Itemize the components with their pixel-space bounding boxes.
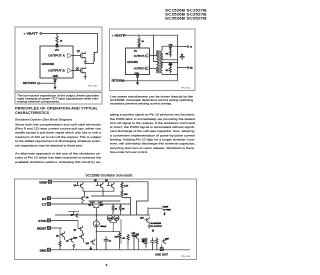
transistor Q8 — [71, 212, 79, 218]
transistor Q16 — [140, 217, 149, 225]
node center tap junction — [153, 35, 154, 36]
resistor R13 — [119, 204, 125, 215]
wire to resistor — [56, 34, 58, 37]
resistor R5 — [166, 66, 172, 74]
svg-text:VREF: VREF — [39, 181, 48, 185]
transformer T1 primary — [157, 50, 158, 72]
resistor R1 — [56, 36, 63, 44]
paragraph right column — [110, 113, 195, 154]
transistor Q6 — [56, 231, 65, 240]
label blanking — [151, 222, 163, 232]
wire secondary bottom cell — [162, 63, 177, 68]
node junction — [56, 33, 57, 34]
svg-text:PRINCIPLES OF OPERATION AND TY: PRINCIPLES OF OPERATION AND TYPICAL — [15, 107, 99, 111]
node tail junction — [96, 207, 97, 208]
transistor Q2 — [94, 180, 103, 191]
wire reset — [51, 227, 63, 229]
transistor Q14 — [107, 215, 113, 221]
svg-text:VC: VC — [134, 50, 138, 53]
transistor Q3 — [105, 180, 114, 191]
paragraph left column — [15, 122, 102, 147]
wire ct — [51, 203, 131, 205]
svg-text:TO OUTPUT: TO OUTPUT — [151, 226, 163, 228]
wire +Vbatt rail right — [125, 35, 177, 81]
caption text left — [17, 95, 100, 104]
capacitor C4 — [132, 232, 140, 250]
svg-text:mizing external components.: mizing external components. — [17, 100, 60, 103]
transistor Q1 — [74, 181, 84, 191]
pin SYNC — [38, 219, 50, 223]
transistor Q4 — [88, 201, 94, 207]
pin OSC OUT — [155, 244, 168, 256]
wire sync drop — [60, 220, 78, 239]
svg-text:RAMP: RAMP — [163, 206, 170, 209]
ground arrow mid — [90, 246, 92, 250]
resistor R9 — [73, 244, 75, 250]
svg-text:+ VBATT: + VBATT — [24, 32, 39, 36]
inductor L1 — [85, 53, 97, 64]
node RETURN terminal right — [112, 80, 125, 83]
transistor Q18 — [162, 238, 170, 244]
wire rt drop — [88, 200, 90, 202]
node gnd junction right — [137, 80, 138, 81]
svg-text:fore under full user control.: fore under full user control. — [110, 150, 148, 154]
wire mid bus — [91, 196, 131, 215]
transformer T1 secondary — [161, 51, 162, 73]
svg-text:450µA: 450µA — [100, 225, 106, 228]
svg-text:GROUND: GROUND — [127, 61, 138, 64]
paragraph left column 2 — [15, 151, 101, 163]
wire output A to QF gate — [72, 55, 81, 57]
svg-text:TO PWM: TO PWM — [163, 209, 172, 211]
svg-text:+ VBATT: + VBATT — [112, 34, 125, 37]
figure frame — [110, 29, 196, 91]
transistor Q13 — [142, 238, 147, 244]
transistor QE — [76, 67, 86, 76]
wire return rail right — [124, 80, 177, 82]
svg-text:CHARACTERISTICS: CHARACTERISTICS — [15, 111, 50, 115]
resistor R3 — [138, 35, 145, 44]
transistor Q15 — [114, 215, 120, 221]
transistor Q10 — [74, 233, 84, 242]
svg-text:OUTPUT B: OUTPUT B — [48, 69, 65, 73]
wire q8 bus — [68, 211, 79, 213]
caption box left — [15, 93, 102, 104]
label ramp to pwm — [163, 206, 172, 216]
node junction dots right rail — [177, 46, 178, 68]
resistor R8 — [59, 240, 61, 249]
node RETURN terminal — [23, 81, 40, 85]
transistor Q11 — [86, 239, 95, 245]
wire return — [39, 82, 55, 84]
wire gnd rail — [51, 249, 191, 251]
svg-text:CT: CT — [42, 203, 47, 207]
wire q1 q2 q3 bus — [83, 191, 114, 196]
svg-text:15K: 15K — [124, 194, 128, 196]
pin RESET — [37, 226, 51, 230]
transistor Q7 — [66, 237, 74, 243]
diode CR1 — [55, 44, 58, 48]
wire mid links — [96, 230, 119, 232]
pin OUTPUT B — [48, 68, 72, 72]
ground symbol schematic right — [148, 225, 151, 229]
pin RT — [42, 197, 51, 201]
capacitor C3 — [150, 237, 155, 249]
svg-text:OSC OUT: OSC OUT — [155, 252, 168, 256]
svg-text:RT: RT — [42, 197, 47, 201]
resistor R7 — [121, 188, 128, 196]
svg-text:TPS–5103: TPS–5103 — [181, 256, 190, 258]
wire sync — [51, 219, 79, 221]
svg-text:RETURN: RETURN — [23, 81, 36, 85]
svg-text:available shutdown options. Ac: available shutdown options. Activating t… — [15, 160, 101, 164]
transistor QF — [77, 50, 85, 60]
wire secondary top cell — [162, 46, 177, 51]
wire output B to T1 — [150, 67, 157, 69]
ground arrow return — [54, 82, 56, 89]
node junction dots bottom rail — [59, 249, 153, 250]
IC block U2 — [126, 48, 150, 75]
wire diff pair tail — [93, 208, 99, 221]
IC block U1 — [40, 46, 73, 78]
svg-text:RESET: RESET — [37, 227, 47, 231]
ground QE — [84, 75, 87, 79]
wire lower bus — [55, 214, 150, 216]
wire output A to T1 — [150, 55, 157, 57]
svg-text:SYNC: SYNC — [38, 219, 47, 223]
svg-text:OUTPUT A: OUTPUT A — [48, 54, 65, 58]
svg-text:OUTPUT B: OUTPUT B — [134, 68, 147, 71]
resistor R11 — [142, 237, 147, 247]
pin OUTPUT A right — [134, 54, 150, 58]
svg-text:10K: 10K — [115, 236, 119, 238]
node junction right — [138, 35, 139, 36]
svg-text:GND: GND — [40, 248, 48, 252]
current source I1 — [93, 221, 107, 250]
svg-text:RETURN: RETURN — [112, 80, 124, 83]
pin OUTPUT A — [48, 53, 72, 57]
svg-text:1.5K: 1.5K — [124, 186, 129, 188]
diode CR3 — [137, 44, 140, 48]
svg-text:QF: QF — [77, 50, 81, 53]
wire vref rail — [52, 181, 149, 183]
wire q12 q13 drops — [121, 219, 139, 250]
node output terminal GND — [178, 67, 194, 70]
svg-text:Shutdown Options (See Block Di: Shutdown Options (See Block Diagram) — [15, 118, 72, 122]
wire output B to QE gate — [72, 70, 81, 72]
resistor R4 — [166, 49, 172, 57]
schematic box — [15, 179, 197, 260]
caption text right — [110, 96, 194, 106]
svg-text:transitions prevents winding c: transitions prevents winding current ove… — [110, 103, 172, 106]
wire rt — [51, 197, 81, 199]
wire branch right — [137, 182, 149, 215]
transistor Q12 — [132, 233, 139, 243]
transformer T1 core — [159, 50, 160, 74]
svg-text:TPS–5101: TPS–5101 — [88, 86, 97, 88]
pin OUTPUT B right — [134, 66, 150, 70]
svg-text:OUTPUT A: OUTPUT A — [134, 55, 147, 58]
pin VREF — [39, 180, 51, 184]
node +VBATT terminal right — [112, 34, 125, 37]
zener CR6 under GND pin right — [136, 75, 138, 78]
wire ramp — [148, 208, 162, 215]
svg-text:QE: QE — [76, 67, 80, 70]
pin CT — [42, 202, 51, 206]
wire q14 q15 tails — [110, 221, 116, 232]
diode CR5 — [169, 63, 174, 66]
resistor R14 — [115, 231, 121, 248]
ground QF — [84, 60, 87, 64]
wire bottom cell lower — [162, 73, 177, 74]
node return junction — [54, 83, 55, 84]
svg-text:SC3526B SC3527B: SC3526B SC3527B — [165, 17, 207, 21]
svg-text:GND: GND — [53, 75, 59, 78]
svg-text:SC1526B Oscillator Schematic: SC1526B Oscillator Schematic — [86, 173, 133, 177]
resistor R10 — [123, 234, 130, 245]
zener CR2 under GND pin — [54, 78, 57, 82]
svg-text:TPS–5102: TPS–5102 — [181, 87, 190, 89]
node mid junctions — [96, 196, 158, 251]
svg-text:GROUND: GROUND — [42, 62, 55, 66]
node +VBATT terminal — [24, 32, 42, 36]
node output terminal +V — [178, 46, 193, 49]
wire comparator top bus — [89, 200, 121, 202]
heading principles — [15, 107, 99, 116]
capacitor C2 — [104, 236, 112, 250]
transistor Q21 — [81, 191, 90, 204]
svg-text:BLANKING: BLANKING — [151, 222, 162, 225]
figure frame — [15, 27, 102, 91]
svg-text:nal capacitance may be attache: nal capacitance may be attached to these… — [15, 143, 83, 147]
wire bottom of top cell — [162, 54, 177, 60]
resistor R15 — [156, 237, 158, 249]
diode CR4 — [169, 44, 174, 49]
ground arrow right figure — [136, 78, 138, 85]
wire center tap — [154, 35, 157, 61]
pin GND — [40, 248, 51, 252]
capacitor C1 — [180, 54, 185, 60]
transistor Q5 — [98, 201, 104, 207]
svg-text:VC: VC — [55, 48, 60, 52]
wire +Vbatt rail — [42, 34, 98, 53]
svg-text:GND: GND — [134, 73, 139, 75]
header part numbers — [165, 9, 207, 21]
transistor Q9 — [74, 226, 83, 235]
resistor R12 — [112, 204, 118, 215]
resistor R6 — [121, 181, 129, 189]
